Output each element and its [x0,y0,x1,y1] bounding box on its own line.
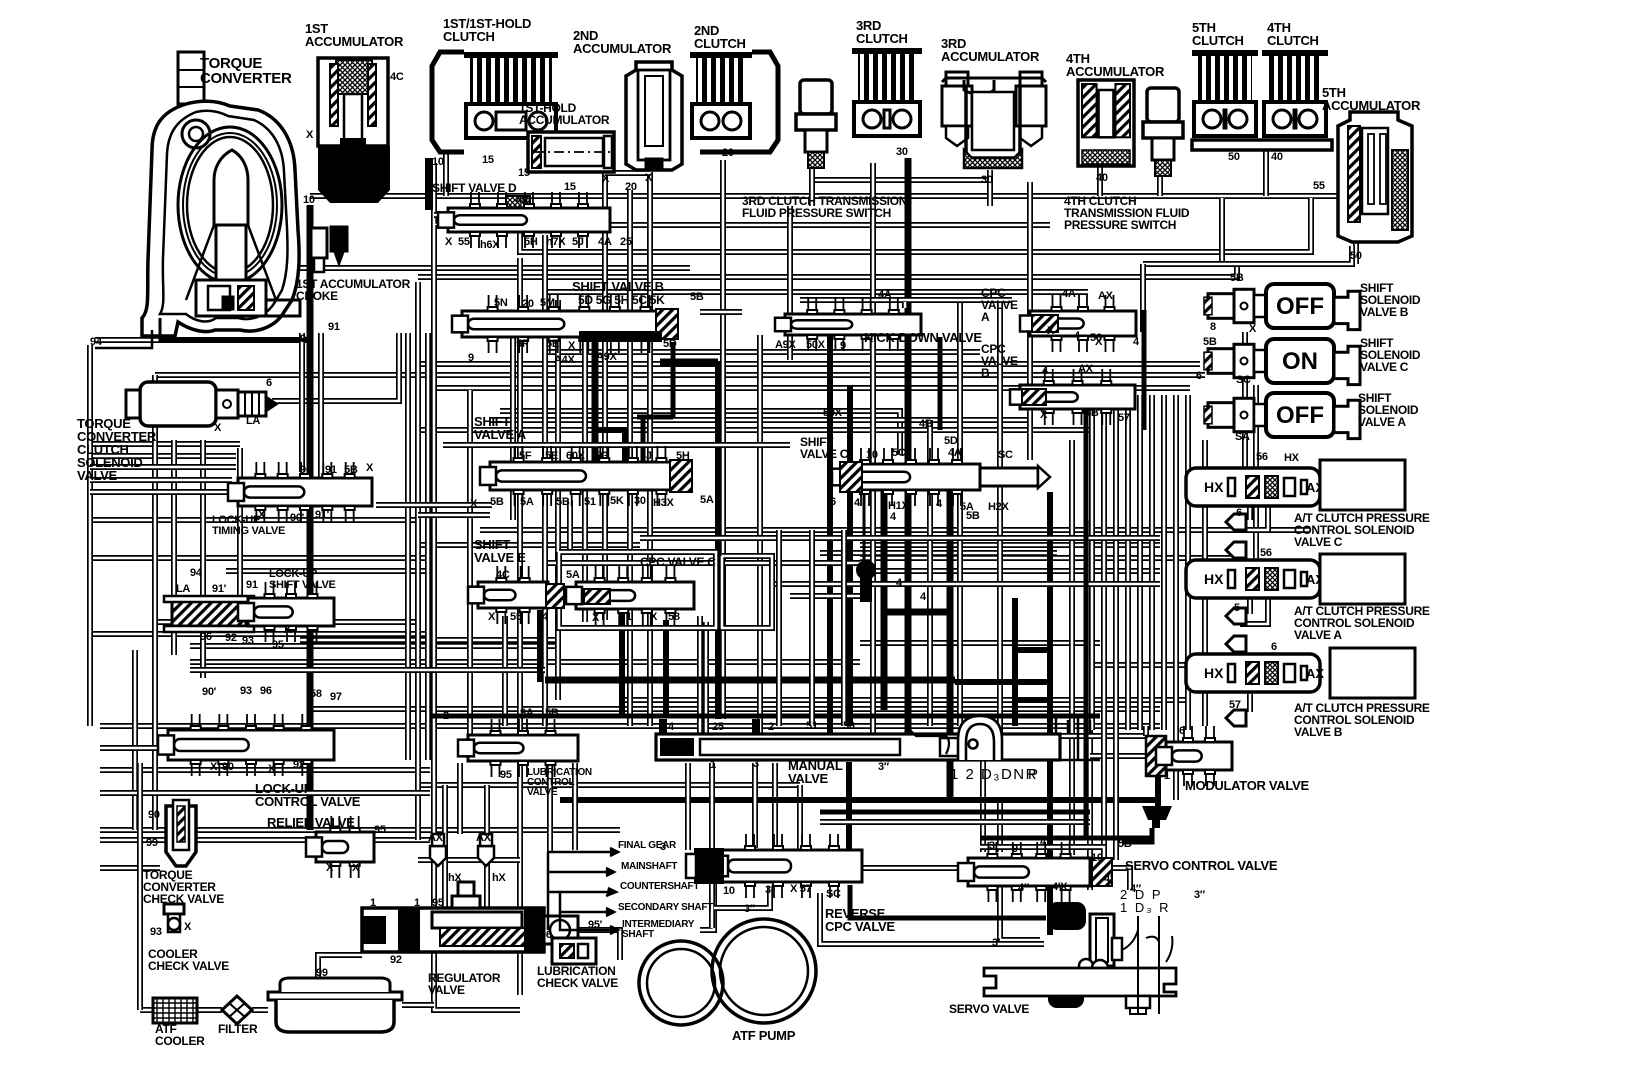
wire right cluster v1092 [1089,395,1095,730]
ATF cooler [153,998,197,1023]
wire right cluster v1104 [1101,395,1107,730]
wire v1072 [1069,440,1075,855]
svg-text:55: 55 [1313,180,1325,192]
wire 5D black bar under valve B [579,331,662,342]
wire cooler line2 [197,1007,222,1013]
svg-text:30: 30 [981,174,993,186]
svg-text:X: X [268,763,276,775]
svg-text:6: 6 [306,646,312,658]
wire cooler line [140,1007,153,1013]
wire bus y646 [190,643,560,649]
wire v558 [555,300,561,700]
wire right cluster v1116 [1113,395,1119,730]
5th clutch [1192,50,1258,136]
svg-text:HX: HX [1204,479,1224,495]
wire bus y420 [490,417,1030,423]
wire hx col 3 [1247,598,1253,614]
wire bus y558a [90,555,430,561]
servo gear position indicator [1122,916,1172,1014]
wire bus y700 [620,697,1190,703]
svg-text:hX: hX [448,872,462,884]
svg-text:6: 6 [266,377,272,389]
svg-text:55: 55 [458,236,470,248]
wire ladder rung 650 [1015,647,1050,653]
svg-text:90': 90' [290,512,305,524]
svg-text:30: 30 [634,495,646,507]
wire 40 bus [520,198,1311,252]
svg-text:4B: 4B [1085,407,1099,419]
svg-text:56: 56 [1256,451,1268,463]
A/T CPC valve B plug [1226,710,1246,726]
shift valve E hatched end [546,584,564,608]
svg-text:5B: 5B [1230,272,1244,284]
3rd clutch [852,48,922,136]
wire bus y364 [420,361,1200,367]
manual valve [656,714,1100,760]
wire v605 [602,172,608,620]
svg-text:10: 10 [432,156,444,168]
wire pan out [402,1002,434,1008]
shift valve B spool [452,295,678,353]
svg-text:MODULATOR VALVE: MODULATOR VALVE [1185,778,1309,793]
svg-text:10: 10 [723,885,735,897]
svg-text:ON: ON [1282,348,1318,375]
wire v418 [415,282,421,840]
manual valve detent bell [910,716,1002,760]
wire bus y748 [100,745,168,751]
svg-text:9: 9 [1012,843,1018,855]
svg-text:92: 92 [293,759,305,771]
wire v760 manual 2 [757,335,763,733]
svg-text:HX: HX [1204,665,1224,681]
4th clutch [1262,50,1328,136]
wire bus y670 [190,667,545,673]
svg-text:A4X: A4X [554,354,575,366]
svg-text:4C: 4C [496,569,510,581]
svg-text:MAINSHAFT: MAINSHAFT [621,861,677,872]
svg-text:10: 10 [303,194,315,206]
svg-text:90: 90 [300,464,312,476]
svg-text:91: 91 [325,464,337,476]
svg-text:SC: SC [998,449,1013,461]
wire hx col 5 [1247,692,1253,712]
svg-text:92: 92 [225,632,237,644]
wire 5th acc 50 [1353,242,1359,264]
wire bus y352 [545,349,980,355]
wire v135 [132,650,138,830]
wire solenoid col 1245 [1242,332,1248,470]
svg-text:3″: 3″ [878,761,890,773]
svg-text:5N: 5N [494,297,508,309]
svg-text:X: X [1040,409,1048,421]
wire bus y571b [860,568,1160,574]
wire h719 thick [430,714,1100,719]
svg-text:5B: 5B [690,291,704,303]
wire v321 [318,333,324,478]
svg-text:hX: hX [492,872,506,884]
svg-text:8: 8 [1210,321,1216,333]
relief valve spool [306,816,374,878]
svg-text:5J: 5J [640,450,652,462]
svg-text:6: 6 [1179,725,1185,737]
wire v812b [809,530,815,726]
wire v850 [847,385,853,726]
lock-up timing valve spool [228,462,372,522]
svg-text:90: 90 [300,333,312,345]
svg-text:5D: 5D [663,338,677,350]
kick-down valve spool [775,298,921,351]
wire bus y563 [548,560,860,566]
wire bus y538 [640,535,1160,541]
wire filter to pan [252,1007,268,1013]
wire v575 shaft [572,763,578,850]
servo control valve hatched end [1092,858,1112,886]
wire v302 [299,333,305,472]
cooler check valve [164,904,184,932]
wire hx col 2 [1240,506,1268,530]
wire right cluster ext2 [1113,730,1119,860]
svg-text:3': 3' [992,937,1001,949]
wire TCC outlet [272,333,399,401]
svg-text:2: 2 [443,710,449,722]
svg-text:57: 57 [1118,412,1130,424]
wire 5th clutch 50 down [1219,198,1225,262]
svg-text:20: 20 [522,298,534,310]
A/T clutch pressure control solenoid valve A [1186,560,1324,598]
check valve AX right [478,834,494,866]
svg-text:1: 1 [1164,770,1170,782]
svg-text:58: 58 [310,688,322,700]
svg-text:91': 91' [315,509,330,521]
wire v140 cooler [137,763,143,1010]
wire right cluster v1152 [1149,395,1155,730]
wire h612 [882,609,950,616]
svg-text:91': 91' [212,583,227,595]
svg-text:5B: 5B [1118,838,1132,850]
svg-text:H2X: H2X [988,501,1009,513]
drain plug node [856,560,876,602]
svg-text:X: X [326,862,334,874]
wire bus y530 [480,527,1310,533]
svg-text:5H: 5H [524,236,538,248]
svg-text:SC: SC [826,888,841,900]
wire bus y292 [548,289,1088,295]
2nd clutch [690,52,752,138]
svg-text:AX: AX [428,832,444,844]
reverse CPC valve black piston [694,848,724,884]
svg-text:4': 4' [1104,873,1113,885]
wire bus y520 [90,517,420,523]
wire v570 [567,500,573,552]
wire v800 reverse cpc [797,785,803,855]
svg-text:94: 94 [90,336,103,348]
wire v1015 black [1012,598,1018,726]
svg-text:X: X [445,236,453,248]
wire bus y300 [800,297,1012,303]
svg-text:93: 93 [150,926,162,938]
svg-text:4A: 4A [878,289,892,301]
wire bus y312 [700,309,742,315]
svg-text:40: 40 [1096,172,1108,184]
svg-text:5H: 5H [676,450,690,462]
port 40 hatch box above valve D [506,196,530,211]
svg-text:CPC VALVE C: CPC VALVE C [640,555,716,569]
svg-text:99: 99 [316,967,328,979]
svg-text:1: 1 [414,897,420,909]
wire bus y634 [90,631,430,637]
wire 5J thick up [671,342,676,417]
wire v174 [171,440,177,655]
wire hx col 4 [1240,598,1268,624]
wire bus y756 [1090,753,1146,759]
svg-text:5F: 5F [519,450,532,462]
svg-text:5A: 5A [700,494,714,506]
clutch common base plate [1192,140,1332,150]
svg-text:96: 96 [200,631,212,643]
svg-text:SERVO VALVE: SERVO VALVE [949,1002,1029,1016]
wire v884 H1X [881,490,888,710]
wire v844 [841,530,847,726]
svg-text:6: 6 [1271,641,1277,653]
svg-text:X 57: X 57 [790,883,812,895]
wire bus y571a [226,568,430,574]
5th accumulator [1338,112,1412,242]
CPC valve A spool [1020,295,1136,352]
wire v1205 [1202,440,1208,726]
svg-text:FILTER: FILTER [218,1022,258,1036]
CPC valve A hatched element [1032,315,1058,332]
1st accumulator choke [311,226,348,272]
svg-text:10: 10 [866,449,878,461]
svg-text:X: X [214,422,222,434]
wire bus y558b [860,555,1240,561]
wire bus y444 [90,441,240,447]
wire bus y173 [605,170,650,176]
svg-text:50X: 50X [806,339,826,351]
wire bus y840 [100,837,430,843]
svg-text:5D 5G 5H 5C 5K: 5D 5G 5H 5C 5K [578,293,665,307]
torque converter check valve [166,800,196,866]
svg-text:5A: 5A [520,496,534,508]
svg-text:X: X [592,612,600,624]
svg-text:6: 6 [1196,370,1202,382]
wire v1143 [1140,264,1146,332]
wire 4th acc stub [1097,166,1103,196]
wire solenoid col 1256 [1253,385,1259,560]
wire 5B heavy [1142,310,1147,430]
modulator drain funnel [1142,806,1172,828]
wire 1st accumulator feed [307,205,314,830]
svg-text:5D: 5D [944,435,958,447]
svg-text:X: X [1249,323,1257,335]
svg-text:96: 96 [260,685,272,697]
wire bus y430 [418,427,1090,433]
svg-text:X: X [306,129,314,141]
wire bus y736 [1060,733,1146,739]
wire kd stub [902,302,908,308]
svg-text:AX: AX [1078,363,1094,375]
svg-text:X: X [1095,336,1103,348]
svg-text:40: 40 [516,194,528,206]
svg-text:A9X: A9X [775,339,796,351]
wire bus y268 [255,265,690,271]
svg-text:50X: 50X [823,407,843,419]
svg-text:3″: 3″ [744,903,756,915]
wire bus y662 [190,659,860,665]
wire v550 lube [547,763,553,852]
svg-text:55: 55 [510,611,522,623]
svg-text:5B: 5B [966,510,980,522]
lock-up control valve spool [158,714,334,776]
wire v700b [697,616,703,733]
wire right cluster ext1 [1101,730,1107,855]
svg-text:SECONDARY SHAFT: SECONDARY SHAFT [618,902,713,913]
svg-text:9A: 9A [520,707,534,719]
wire v1000b [997,800,1003,852]
svg-text:57: 57 [1229,699,1241,711]
check valve AX left [430,834,446,866]
svg-text:5G: 5G [594,450,608,462]
wire v830 manual 51 [827,330,833,733]
svg-text:5A: 5A [566,569,580,581]
shift valve C right plunger [980,468,1038,486]
svg-text:20: 20 [722,147,734,159]
wire pan to regulator [318,955,362,978]
svg-text:X: X [184,921,192,933]
oil pan [268,978,402,1032]
wire 30 bus [810,177,990,183]
svg-text:95': 95' [588,919,603,931]
shift valve A spool [480,446,692,506]
wire bus y553 [820,550,1057,556]
svg-text:56: 56 [1260,547,1272,559]
filter [222,996,252,1024]
svg-text:3: 3 [753,758,759,770]
svg-text:5E: 5E [545,450,558,462]
shift solenoid valve A [1204,393,1360,439]
wire hx col 1 [1247,506,1253,520]
lock-up shift valve hatched sleeve [172,600,246,626]
A/T CPC solenoid valve A coil box [1320,554,1405,604]
svg-text:5C: 5C [892,447,906,459]
svg-text:93: 93 [240,685,252,697]
1st/1st-hold clutch [464,52,558,138]
servo valve [984,902,1176,1014]
svg-text:5B: 5B [545,707,559,719]
svg-text:2: 2 [768,721,774,733]
svg-text:91: 91 [328,321,340,333]
wire bus y793 [100,790,430,796]
svg-text:A9X: A9X [596,351,617,363]
svg-text:h6X: h6X [480,239,500,251]
wire bus y785 [418,782,800,788]
svg-text:HX: HX [1284,452,1300,464]
wire v950 [947,490,954,800]
svg-text:95: 95 [432,897,444,909]
wire v849 to reverse cpc [846,762,852,850]
svg-text:95: 95 [500,769,512,781]
svg-text:99: 99 [146,837,158,849]
lubrication check valve [552,938,596,964]
wire bus y584 [775,581,1160,587]
wire clutch1 stub [443,152,449,196]
wire right cluster ext3 [1173,730,1179,800]
wire v908 3rd clutch [905,158,912,733]
wire bus y456 [90,453,236,459]
wire bus y467 [90,464,236,470]
wire 3-prime servo [820,893,1044,944]
wire right cluster v1128 [1125,395,1131,730]
svg-text:4″: 4″ [1130,883,1142,895]
svg-text:X: X [568,340,576,352]
svg-text:SHIFT VALVE D: SHIFT VALVE D [432,181,517,195]
wire v203 [200,440,206,678]
svg-text:4A: 4A [1062,288,1076,300]
svg-text:4'X: 4'X [1052,881,1068,893]
wire 5J thick h [637,415,673,420]
svg-text:X: X [284,624,292,636]
lock-up shift valve spool [238,582,334,642]
1st-hold accumulator [528,132,614,172]
svg-text:LUBRICATIONCHECK VALVE: LUBRICATIONCHECK VALVE [537,964,618,990]
svg-text:SHIFT VALVE B: SHIFT VALVE B [572,279,664,294]
wire bus y665b [1090,662,1240,668]
CPC valve B hatched element [1022,389,1046,405]
svg-text:50: 50 [1228,151,1240,163]
reverse CPC valve spool [712,834,862,898]
svg-text:4A: 4A [948,447,962,459]
svg-text:5K: 5K [610,495,624,507]
wire v983 [980,726,986,852]
wire bus y545a [418,542,640,548]
wire 4-prime black [850,885,1046,918]
svg-text:X: X [470,498,478,510]
wire left long vertical [434,225,520,1010]
svg-text:6: 6 [1236,507,1242,519]
wire bus y215 [434,212,520,218]
svg-text:25: 25 [620,236,632,248]
wire manual port 4 stub [659,719,667,734]
4th clutch pressure switch [1143,88,1183,176]
wire 4th clutch stub [1263,150,1269,196]
2nd clutch bracket [700,52,778,152]
wire bus y643 [860,640,1100,646]
svg-text:50: 50 [843,720,855,732]
wire v1030 [1027,182,1033,460]
svg-text:LA: LA [246,415,260,427]
wire sol B wiring [1334,300,1356,306]
svg-text:AX: AX [1098,290,1114,302]
wire 15 branch [434,163,1050,225]
svg-text:1: 1 [626,611,632,623]
lubrication control valve spool [458,719,578,777]
svg-text:5B: 5B [344,464,358,476]
svg-text:X: X [602,173,610,185]
svg-text:5M: 5M [540,297,555,309]
svg-text:60X: 60X [566,450,586,462]
CPC valve B spool [1010,369,1135,425]
4th accumulator [1078,80,1134,166]
svg-text:15: 15 [564,181,576,193]
svg-text:90': 90' [202,686,217,698]
svg-text:OFF: OFF [1276,293,1324,320]
wire 4th pressure switch stem [1157,176,1163,196]
svg-text:95: 95 [374,824,386,836]
wire v545 [542,235,548,726]
svg-text:1: 1 [710,759,716,771]
wire modulator drain [1155,772,1161,806]
svg-text:X: X [258,509,266,521]
